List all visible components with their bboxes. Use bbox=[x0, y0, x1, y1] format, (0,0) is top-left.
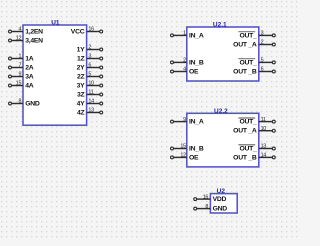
U1 pin 10 (3Y) bbox=[77, 81, 103, 90]
U1 pin 3 (1Z) bbox=[77, 54, 103, 63]
svg-text:OE: OE bbox=[189, 69, 199, 76]
U2.2 pin 12 (OE) bbox=[171, 153, 199, 162]
svg-text:3: 3 bbox=[88, 54, 91, 60]
svg-text:16: 16 bbox=[203, 194, 209, 200]
IC U2.2 line receiver section B body bbox=[187, 113, 259, 167]
U2.1 pin 1 (IN_A) bbox=[171, 31, 204, 40]
svg-text:6: 6 bbox=[261, 67, 264, 73]
svg-text:U1: U1 bbox=[51, 20, 60, 27]
svg-text:IN_A: IN_A bbox=[189, 119, 204, 126]
U1 pin 1 (1A) bbox=[9, 54, 34, 63]
U1 pin 5 (2Z) bbox=[77, 72, 103, 81]
IC U2 power section body bbox=[210, 194, 237, 213]
U1 pin 14 (4Y) bbox=[77, 99, 103, 108]
svg-text:GND: GND bbox=[25, 101, 40, 108]
svg-text:GND: GND bbox=[213, 206, 228, 213]
U1 pin 8 (GND) bbox=[9, 99, 40, 108]
svg-text:1: 1 bbox=[183, 31, 186, 37]
svg-text:IN_B: IN_B bbox=[189, 59, 204, 66]
U1 pin 12 (3,4EN) bbox=[9, 36, 44, 45]
svg-text:3A: 3A bbox=[25, 74, 34, 81]
svg-text:OUT_: OUT_ bbox=[239, 119, 257, 126]
U1 pin 9 (3A) bbox=[9, 72, 34, 81]
U1 pin 15 (4A) bbox=[9, 81, 34, 90]
svg-text:2: 2 bbox=[88, 45, 91, 51]
svg-text:13: 13 bbox=[261, 144, 267, 150]
svg-text:1,2EN: 1,2EN bbox=[25, 29, 43, 36]
svg-text:4: 4 bbox=[18, 27, 21, 33]
svg-text:IN_B: IN_B bbox=[189, 146, 204, 153]
svg-text:7: 7 bbox=[18, 63, 21, 69]
U2.2 pin 13 (OUT_ inverted) bbox=[238, 144, 275, 153]
svg-text:4Z: 4Z bbox=[77, 110, 85, 117]
svg-text:6: 6 bbox=[88, 63, 91, 69]
svg-text:4Y: 4Y bbox=[77, 101, 86, 108]
U2.1 pin 4 (OE) bbox=[171, 67, 199, 76]
svg-text:OUT _A: OUT _A bbox=[233, 128, 257, 135]
svg-text:U2.1: U2.1 bbox=[213, 22, 227, 29]
svg-text:14: 14 bbox=[88, 99, 94, 105]
svg-text:15: 15 bbox=[180, 144, 186, 150]
U1 pin 6 (2Y) bbox=[77, 63, 103, 72]
svg-text:OUT _A: OUT _A bbox=[233, 42, 257, 49]
svg-text:11: 11 bbox=[261, 117, 266, 123]
U1 pin 4 (1,2EN) bbox=[9, 27, 44, 36]
U2.1 pin 5 (OUT_ inverted) bbox=[238, 58, 275, 67]
svg-text:13: 13 bbox=[88, 108, 94, 114]
svg-text:16: 16 bbox=[88, 27, 94, 33]
svg-text:5: 5 bbox=[88, 72, 91, 78]
U1 pin 13 (4Z) bbox=[77, 108, 103, 117]
svg-text:3Z: 3Z bbox=[77, 92, 85, 99]
svg-text:3,4EN: 3,4EN bbox=[25, 38, 43, 45]
U2 pin 16 (VDD) bbox=[194, 194, 227, 203]
svg-text:OUT_: OUT_ bbox=[239, 59, 257, 66]
svg-text:1: 1 bbox=[18, 54, 21, 60]
svg-text:14: 14 bbox=[261, 153, 267, 159]
U2.2 pin 11 (OUT_ inverted) bbox=[238, 117, 275, 126]
svg-text:9: 9 bbox=[183, 117, 186, 123]
svg-text:12: 12 bbox=[16, 36, 22, 42]
svg-text:IN_A: IN_A bbox=[189, 32, 204, 39]
U2.2 pin 15 (IN_B) bbox=[171, 144, 204, 153]
svg-text:VDD: VDD bbox=[213, 196, 227, 203]
svg-text:U2: U2 bbox=[217, 188, 226, 195]
svg-text:OUT _B: OUT _B bbox=[233, 154, 257, 161]
svg-text:OUT_: OUT_ bbox=[239, 146, 257, 153]
svg-text:1Y: 1Y bbox=[77, 47, 86, 54]
IC U2.1 line receiver section A body bbox=[187, 27, 259, 81]
svg-text:2A: 2A bbox=[25, 65, 34, 72]
svg-text:10: 10 bbox=[88, 81, 94, 87]
svg-text:3: 3 bbox=[261, 31, 264, 37]
U1 pin 2 (1Y) bbox=[77, 45, 103, 54]
U1 pin 16 (VCC) bbox=[71, 27, 103, 36]
svg-text:8: 8 bbox=[18, 99, 21, 105]
svg-text:10: 10 bbox=[261, 126, 267, 132]
svg-text:4A: 4A bbox=[25, 83, 34, 90]
U2.2 pin 9 (IN_A) bbox=[171, 117, 204, 126]
U1 pin 7 (2A) bbox=[9, 63, 34, 72]
svg-text:5: 5 bbox=[261, 58, 264, 64]
U2.2 pin 14 (OUT _B) bbox=[233, 153, 275, 162]
svg-text:OUT _B: OUT _B bbox=[233, 69, 257, 76]
svg-text:15: 15 bbox=[16, 81, 22, 87]
svg-text:VCC: VCC bbox=[71, 29, 85, 36]
svg-text:4: 4 bbox=[183, 67, 186, 73]
svg-text:2Y: 2Y bbox=[77, 65, 86, 72]
U2.1 pin 2 (IN_B) bbox=[171, 58, 204, 67]
svg-text:1Z: 1Z bbox=[77, 56, 85, 63]
svg-text:1A: 1A bbox=[25, 56, 34, 63]
U2.1 pin 2 (OUT _A) bbox=[233, 40, 275, 49]
svg-text:8: 8 bbox=[205, 204, 208, 210]
svg-text:U2.2: U2.2 bbox=[214, 108, 228, 115]
svg-text:OUT_: OUT_ bbox=[239, 32, 257, 39]
svg-text:12: 12 bbox=[180, 153, 186, 159]
U2.2 pin 10 (OUT _A) bbox=[233, 126, 275, 135]
IC U1 quad differential line driver body bbox=[23, 25, 87, 125]
U1 pin 11 (3Z) bbox=[77, 90, 103, 99]
svg-text:2: 2 bbox=[183, 58, 186, 64]
U2.1 pin 3 (OUT_ inverted) bbox=[238, 31, 275, 40]
svg-text:9: 9 bbox=[18, 72, 21, 78]
svg-text:2Z: 2Z bbox=[77, 74, 85, 81]
svg-text:OE: OE bbox=[189, 154, 199, 161]
U2 pin 8 (GND) bbox=[194, 204, 228, 213]
svg-text:11: 11 bbox=[88, 90, 93, 96]
U2.1 pin 6 (OUT _B) bbox=[233, 67, 275, 76]
svg-text:2: 2 bbox=[261, 40, 264, 46]
svg-text:3Y: 3Y bbox=[77, 83, 86, 90]
